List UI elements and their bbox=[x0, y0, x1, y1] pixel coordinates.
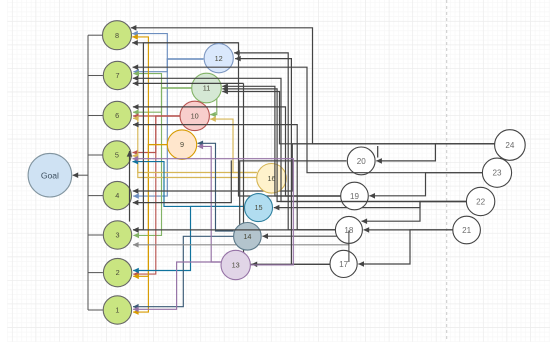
svg-text:8: 8 bbox=[115, 31, 119, 40]
edge 19 to 11 bbox=[222, 86, 340, 196]
edge 3 to 5 bbox=[129, 151, 131, 222]
node Goal bbox=[28, 153, 72, 197]
edge 13 to 9 bbox=[198, 146, 221, 262]
node 11 bbox=[192, 73, 222, 103]
svg-text:3: 3 bbox=[115, 231, 119, 240]
edge 24 to 11 bbox=[222, 92, 494, 144]
svg-text:10: 10 bbox=[191, 112, 199, 121]
node 21 bbox=[453, 216, 481, 244]
edge 17 to 7 run bbox=[244, 83, 331, 264]
node 6 bbox=[103, 101, 131, 129]
edge 18 to 12 bbox=[234, 53, 335, 230]
edge 16 to 6 bbox=[133, 118, 257, 172]
node 1 bbox=[103, 296, 131, 324]
wire trunk to 3 bbox=[88, 234, 103, 236]
edge 21 to 17 bbox=[358, 230, 452, 264]
edge 11 to 6 bbox=[133, 88, 192, 112]
page boundary dashed line bbox=[446, 0, 448, 342]
edge 17 to 7 bbox=[133, 82, 244, 84]
node 12 bbox=[204, 44, 233, 73]
edge 15 to 5 bbox=[133, 162, 245, 207]
node 19 bbox=[341, 182, 369, 210]
svg-text:9: 9 bbox=[180, 140, 184, 149]
node 24 bbox=[495, 130, 526, 161]
edge 20 to 14 run bbox=[240, 161, 347, 226]
node 8 bbox=[103, 21, 132, 50]
edge 17 to 12 bbox=[235, 59, 330, 265]
node 13 bbox=[221, 250, 250, 279]
node 9 bbox=[167, 130, 196, 159]
svg-text:2: 2 bbox=[116, 268, 120, 277]
svg-text:11: 11 bbox=[203, 84, 211, 93]
svg-text:Goal: Goal bbox=[41, 170, 59, 180]
edge 18 to 14 bbox=[262, 235, 337, 237]
edge 12 to 4 bbox=[133, 59, 203, 196]
svg-text:20: 20 bbox=[357, 157, 367, 166]
svg-text:24: 24 bbox=[505, 141, 515, 150]
edge 18 to 6 bbox=[133, 125, 335, 230]
wire trunk to 8 bbox=[88, 34, 103, 36]
node 18 bbox=[335, 216, 362, 243]
wire trunk to 4 bbox=[88, 195, 103, 197]
edge 16 to 5 bbox=[133, 156, 257, 178]
edge 14 to 9 bbox=[198, 143, 234, 231]
edge 10 to 6 bbox=[133, 115, 180, 117]
edge 23 to 19 bbox=[369, 173, 482, 196]
node 16 bbox=[257, 164, 287, 194]
wire trunk to 5 bbox=[88, 154, 103, 156]
edge 22 to 11 bbox=[222, 89, 466, 202]
edge 24 to 4 bbox=[133, 144, 495, 191]
edge trunk to Goal bbox=[73, 174, 88, 176]
node 7 bbox=[103, 61, 131, 89]
edge 24 to 8 bbox=[131, 28, 495, 144]
node 5 bbox=[103, 141, 131, 169]
node 3 bbox=[103, 221, 131, 249]
node 4 bbox=[103, 181, 131, 209]
svg-text:1: 1 bbox=[115, 306, 119, 315]
edge 12 to 8 bbox=[132, 34, 203, 59]
svg-text:15: 15 bbox=[254, 203, 262, 212]
svg-text:23: 23 bbox=[492, 169, 502, 178]
svg-text:22: 22 bbox=[476, 197, 486, 206]
svg-text:12: 12 bbox=[215, 54, 223, 63]
edge 10 to 5 bbox=[133, 116, 181, 153]
edge 10 to 2 bbox=[133, 116, 180, 274]
edge 22 to 15 bbox=[274, 202, 467, 208]
edge 24 to 20 bbox=[376, 144, 494, 161]
edge 21 to 4 bbox=[133, 160, 232, 202]
node 10 bbox=[180, 101, 209, 130]
wire trunk vertical bbox=[87, 35, 89, 310]
node 20 bbox=[347, 147, 375, 175]
edge 9 to 8 bbox=[132, 37, 167, 145]
edge 22 to 7 bbox=[133, 78, 467, 201]
edge 11 to 10 bbox=[210, 99, 217, 115]
edge 18 to 3 lower bbox=[133, 243, 349, 244]
edge 9 to 1 bbox=[133, 145, 167, 313]
edge 11 to 7 bbox=[133, 74, 192, 88]
edge 19 to 6 bbox=[133, 107, 341, 196]
edge 22 to 18 bbox=[362, 202, 467, 222]
svg-text:14: 14 bbox=[243, 232, 251, 241]
node 17 bbox=[330, 250, 357, 277]
edge 17 to 13 bbox=[252, 263, 330, 265]
node 2 bbox=[103, 258, 131, 286]
edge 16 to 10 bbox=[210, 119, 257, 172]
wire trunk to 6 bbox=[88, 115, 103, 117]
svg-text:5: 5 bbox=[115, 151, 119, 160]
svg-text:7: 7 bbox=[115, 71, 119, 80]
edge 23 to 7 bbox=[133, 67, 483, 173]
svg-text:21: 21 bbox=[462, 226, 472, 235]
svg-text:6: 6 bbox=[115, 111, 119, 120]
wire trunk to 2 bbox=[88, 272, 103, 274]
edge 13 to 1 bbox=[133, 262, 221, 309]
edge 19 to 3 bbox=[133, 43, 239, 230]
edge 12 to 7 bbox=[133, 59, 203, 72]
wire 18 inner drop bbox=[348, 231, 350, 263]
edge 21 to 18 bbox=[364, 229, 453, 231]
node 22 bbox=[466, 187, 494, 215]
edge 14 to 1 bbox=[133, 236, 234, 306]
svg-text:19: 19 bbox=[350, 192, 360, 201]
edge 11 to 3 bbox=[133, 88, 192, 235]
node 15 bbox=[245, 194, 273, 222]
svg-text:4: 4 bbox=[115, 191, 119, 200]
node 14 bbox=[234, 223, 262, 251]
svg-text:13: 13 bbox=[232, 261, 240, 270]
svg-text:17: 17 bbox=[339, 260, 349, 269]
edge 13 to 5 bbox=[133, 159, 294, 265]
wire trunk to 7 bbox=[88, 75, 103, 77]
edge 15 to 2 bbox=[133, 206, 244, 270]
edge 9 to 2 bbox=[133, 145, 167, 277]
wire jog near 20 bbox=[377, 146, 379, 158]
edge 18 to 3 bbox=[133, 229, 335, 231]
wire trunk to 1 bbox=[88, 309, 103, 311]
node 23 bbox=[482, 158, 511, 187]
edge 19 to 8 bbox=[132, 43, 340, 196]
